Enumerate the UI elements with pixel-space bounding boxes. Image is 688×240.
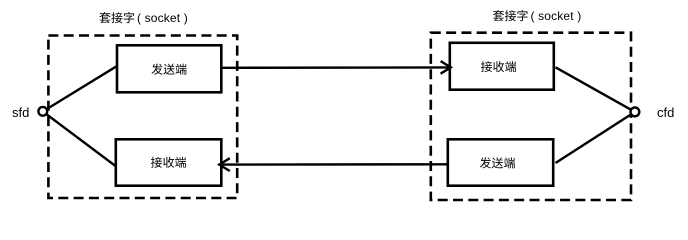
svg-text:( socket ): ( socket ) xyxy=(137,11,188,25)
svg-text:sfd: sfd xyxy=(12,105,29,120)
svg-text:( socket ): ( socket ) xyxy=(531,9,582,23)
svg-text:cfd: cfd xyxy=(657,105,674,120)
